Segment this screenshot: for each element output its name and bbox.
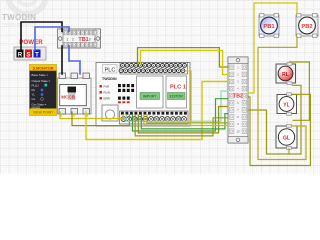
svg-text:PLC 1: PLC 1 <box>170 85 186 91</box>
svg-text:MCCB: MCCB <box>61 95 75 100</box>
svg-text:4: 4 <box>94 37 96 41</box>
svg-text:T: T <box>35 53 39 59</box>
svg-text:Base State =: Base State = <box>32 73 49 77</box>
svg-text:TWODIN: TWODIN <box>2 13 36 22</box>
svg-text:PLC: PLC <box>105 67 116 73</box>
svg-text:RL: RL <box>282 72 289 78</box>
svg-text:1: 1 <box>67 37 69 41</box>
svg-text:PoR: PoR <box>104 85 111 89</box>
svg-text:3: 3 <box>89 37 91 41</box>
svg-text:RL: RL <box>32 88 36 92</box>
svg-text:TB2: TB2 <box>233 94 243 100</box>
svg-text:RUN: RUN <box>104 91 111 95</box>
svg-text:EDITOR: EDITOR <box>170 95 184 99</box>
svg-text:VIEW POINT: VIEW POINT <box>33 111 54 115</box>
svg-text:R: R <box>18 53 23 59</box>
svg-text:PL(1): PL(1) <box>32 84 39 88</box>
svg-text:TWODIN SIMULATOR: TWODIN SIMULATOR <box>2 23 37 27</box>
svg-text:S.MONITOR: S.MONITOR <box>33 67 54 71</box>
svg-text:GL: GL <box>283 135 290 141</box>
svg-text:Output State =: Output State = <box>32 79 51 83</box>
svg-text:YL: YL <box>32 93 36 97</box>
svg-text:ERR: ERR <box>104 97 111 101</box>
svg-text:PB2: PB2 <box>301 24 312 30</box>
svg-text:MODE: MODE <box>32 105 41 109</box>
svg-text:IMPORT: IMPORT <box>143 95 157 99</box>
svg-text:POWER: POWER <box>19 39 43 46</box>
svg-text:GL: GL <box>32 97 36 101</box>
svg-text:PB1: PB1 <box>263 24 275 30</box>
svg-text:TB1: TB1 <box>78 37 88 43</box>
svg-text:TWODIN: TWODIN <box>102 77 117 81</box>
svg-text:2: 2 <box>72 37 74 41</box>
svg-text:S: S <box>26 53 30 59</box>
svg-text:YL: YL <box>283 102 289 108</box>
